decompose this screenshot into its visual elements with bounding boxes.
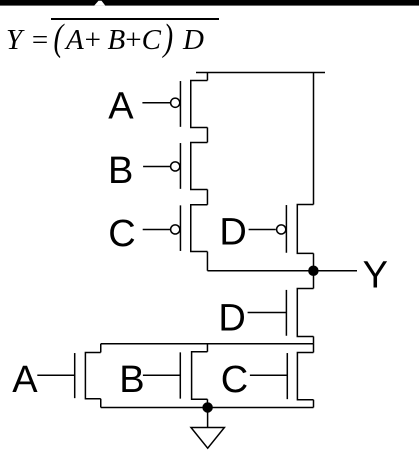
pmos A (transistor, gate A) <box>108 80 207 127</box>
wire nmos D to nmos drain rail <box>313 336 315 343</box>
nmos source rail wire <box>101 406 314 408</box>
wire pmos D to node Y <box>313 253 315 270</box>
wire rail to nmos C <box>313 344 315 353</box>
svg-text:B: B <box>119 359 144 401</box>
wire VDD to pmos D <box>313 72 315 204</box>
svg-text:D: D <box>219 212 246 254</box>
nmos drain rail wire <box>101 343 314 345</box>
nmos D (transistor, gate D) <box>218 289 313 340</box>
svg-text:D: D <box>218 297 245 339</box>
nmos B (transistor, gate B) <box>119 352 207 401</box>
pmos C (transistor, gate C) <box>108 205 207 255</box>
VDD rail wire <box>196 71 325 73</box>
wire rail to nmos A <box>100 344 102 353</box>
svg-text:A: A <box>108 86 134 128</box>
wire pmos A to pmos B <box>206 127 208 142</box>
node Y wire and junction <box>207 255 388 297</box>
wire nmos C to source rail <box>313 400 315 408</box>
svg-text:C: C <box>108 213 135 255</box>
wire pmos B to pmos C <box>206 189 208 204</box>
wire node Y to nmos D <box>313 271 315 289</box>
svg-text:A: A <box>12 359 38 401</box>
wire VDD to pmos A <box>206 72 208 80</box>
equation Y = NOT((A+B+C)D) <box>6 26 22 55</box>
wire rail to nmos B <box>206 344 208 352</box>
pmos B (transistor, gate B) <box>108 142 207 192</box>
pmos D (transistor, gate D) <box>219 204 313 253</box>
svg-text:Y: Y <box>363 255 388 297</box>
nmos A (transistor, gate A) <box>12 352 101 401</box>
wire nmos B to source rail junction <box>203 399 212 412</box>
ground <box>191 407 224 448</box>
nmos C (transistor, gate C) <box>221 352 314 401</box>
svg-text:B: B <box>108 150 133 192</box>
wire nmos A to source rail <box>100 399 102 408</box>
top bar with notch <box>0 0 419 10</box>
wire pmos C to node Y <box>206 252 208 271</box>
svg-text:C: C <box>221 359 248 401</box>
